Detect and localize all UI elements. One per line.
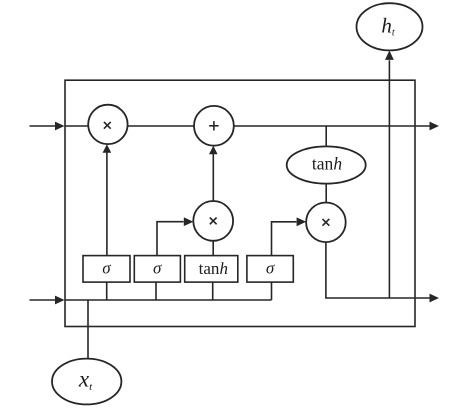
- wire: cell line down to tanh ellipse: [325, 126, 327, 146]
- wire: sigma2 down to bottom line: [155, 282, 157, 300]
- wire: sigma3 elbow to output multiply: [272, 222, 297, 256]
- wire: branch up to h_t: [388, 60, 390, 298]
- wire: tanh ellipse down to output multiply: [325, 184, 327, 203]
- wire: input multiply up to plus: [212, 154, 214, 201]
- node: plus circle: [194, 106, 234, 146]
- wire: plus circle to right exit: [234, 125, 430, 127]
- wire: bottom line down to x_t: [87, 300, 89, 359]
- svg-text:xt: xt: [78, 367, 93, 394]
- arrowhead bottom-right exit: [430, 294, 440, 303]
- h_t output ellipse: [357, 3, 423, 50]
- node: forget multiply circle: [88, 105, 127, 144]
- node: output multiply circle: [306, 203, 346, 243]
- arrowhead at h_t ellipse bottom: [385, 50, 394, 60]
- arrowhead at plus bottom: [209, 146, 218, 155]
- svg-text:σ: σ: [153, 259, 162, 278]
- wire: sigma1 down to bottom line: [106, 282, 108, 300]
- arrowhead top-right exit: [430, 122, 440, 131]
- svg-text:tanh: tanh: [199, 259, 228, 278]
- svg-text:σ: σ: [102, 259, 111, 278]
- wire: between multiply and plus circles: [127, 125, 194, 127]
- arrowhead into box (top): [55, 122, 65, 131]
- wire: top cell-state input line: [30, 125, 57, 127]
- arrowhead at output multiply left: [297, 217, 307, 226]
- sigma gate box 2: [134, 256, 180, 283]
- x_t input ellipse: [52, 359, 121, 405]
- wire: sigma1 up to forget multiply: [106, 153, 108, 256]
- svg-text:ht: ht: [381, 13, 395, 38]
- arrowhead at forget multiply bottom: [103, 144, 112, 153]
- svg-text:tanh: tanh: [312, 154, 342, 174]
- wire: tanh box down to bottom line: [212, 282, 214, 300]
- sigma gate box 1: [83, 256, 130, 283]
- wire: bottom input line: [30, 299, 57, 301]
- wire: sigma3 down to bottom line: [271, 282, 273, 300]
- tanh ellipse: [287, 146, 366, 183]
- tanh gate box: [185, 256, 238, 283]
- wire: box edge to multiply circle: [65, 125, 88, 127]
- wire: tanh box up to input multiply: [212, 241, 214, 256]
- arrowhead at input multiply left: [184, 217, 194, 226]
- LSTM cell box: [65, 80, 415, 326]
- wire: sigma2 elbow to input multiply: [157, 222, 184, 256]
- arrowhead into box (bottom): [55, 296, 65, 305]
- sigma gate box 3: [247, 256, 293, 283]
- wire: output multiply down then right to exit: [326, 242, 430, 298]
- wire: bottom input line inside box: [65, 299, 272, 301]
- svg-text:σ: σ: [266, 259, 275, 278]
- node: input multiply circle: [193, 201, 233, 241]
